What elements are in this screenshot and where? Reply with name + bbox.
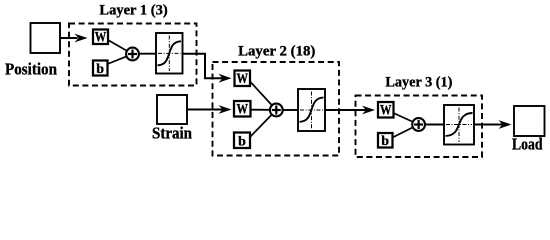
svg-text:Layer 1 (3): Layer 1 (3) [99,3,167,19]
weight box W-1 (Layer 2) [235,71,251,88]
wire sum to activation (Layer 1) [139,53,156,55]
svg-text:W: W [95,30,107,46]
weight box W (Layer 1) [93,30,108,46]
wire Layer1 output to Layer2 W input (elbow) with arrowhead [183,54,232,83]
activation box tansig (Layer 1) [156,33,183,74]
svg-text:Load: Load [512,134,543,153]
svg-text:W: W [237,71,249,87]
summing junction (Layer 1) [126,48,139,61]
wire Layer2 output to Layer3 W input with arrowhead [325,106,375,115]
wire b1 to sum (Layer 1) [108,54,133,64]
wire W3 to sum (Layer 3) [394,113,419,125]
weight box W-2 (Layer 2) [234,101,251,118]
input box Strain [157,95,187,124]
summing junction (Layer 2) [270,104,283,117]
wire Strain to W2 with arrowhead [187,105,232,114]
summing junction (Layer 3) [412,118,425,131]
svg-text:W: W [237,102,249,118]
bias box b (Layer 1) [93,61,108,78]
wire Layer3 output to Load with arrowhead [474,120,512,129]
Layer 2 dashed box [213,62,340,156]
svg-text:b: b [238,135,246,150]
wire sum to activation (Layer 3) [425,124,444,126]
wire Position to W1 with arrowhead [60,34,88,43]
svg-text:Position: Position [5,60,57,79]
wire W1 to sum (Layer 1) [108,40,133,54]
svg-text:Strain: Strain [152,123,192,142]
wire b2 to sum (Layer 2) [251,110,277,137]
wire W-2 to sum (Layer 2) [251,109,277,111]
output box Load [514,106,545,136]
activation box tansig (Layer 3) [444,105,474,145]
wire b3 to sum (Layer 3) [393,125,419,138]
wire W-1 to sum (Layer 2) [251,82,277,110]
svg-text:b: b [381,134,389,149]
svg-text:b: b [96,62,104,77]
weight box W (Layer 3) [378,102,394,119]
Layer 3 dashed box [356,96,483,158]
Layer 1 dashed box [69,24,197,86]
svg-text:W: W [380,103,392,119]
activation box tansig (Layer 2) [298,89,325,131]
svg-text:Layer 3 (1): Layer 3 (1) [385,75,452,91]
wire sum to activation (Layer 2) [283,109,298,111]
svg-text:Layer 2 (18): Layer 2 (18) [238,44,315,60]
input box Position [31,23,61,53]
bias box b (Layer 2) [234,133,250,150]
bias box b (Layer 3) [378,133,393,149]
